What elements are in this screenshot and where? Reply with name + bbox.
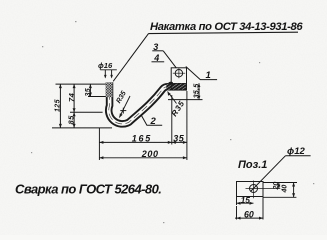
svg-text:Сварка по ГОСТ 5264-80.: Сварка по ГОСТ 5264-80. — [15, 182, 161, 197]
weld symbol 3/4 — [152, 42, 165, 63]
R35 upper bend — [168, 92, 187, 119]
svg-text:60: 60 — [244, 209, 254, 219]
dim 125 vertical — [55, 84, 62, 128]
detail dims 20 / 40 right — [263, 182, 297, 198]
svg-text:40: 40 — [282, 185, 289, 194]
detail hole — [246, 181, 281, 199]
dim 200 — [99, 149, 186, 159]
note: Сварка по ГОСТ 5264-80. — [15, 182, 161, 197]
svg-text:35,5: 35,5 — [192, 83, 201, 99]
svg-text:85: 85 — [67, 115, 76, 125]
dim 35 knurl length — [85, 84, 106, 96]
svg-text:ϕ16: ϕ16 — [98, 61, 113, 70]
leader from title to knurl — [113, 34, 148, 82]
svg-text:35: 35 — [173, 133, 185, 143]
svg-text:20: 20 — [273, 182, 280, 191]
detail dim 60 — [235, 197, 263, 220]
rod end cap at plate right face — [185, 83, 187, 91]
dim 85 vertical — [67, 112, 76, 128]
position flag 1 — [186, 67, 217, 82]
detail label Поз.1 — [238, 159, 267, 171]
detail plate front view — [237, 182, 264, 197]
svg-text:15: 15 — [241, 195, 251, 205]
svg-text:2: 2 — [150, 116, 157, 127]
svg-text:74: 74 — [67, 92, 76, 102]
dim 35,5 right vertical — [168, 83, 203, 100]
weld bead at rod-plate junction — [169, 82, 174, 85]
left dims extension lines — [52, 84, 112, 128]
knurled section (top of rod) — [106, 82, 113, 97]
svg-text:35: 35 — [85, 88, 92, 97]
svg-text:200: 200 — [141, 149, 159, 159]
svg-text:ϕ12: ϕ12 — [287, 146, 305, 157]
plate hole (side view) — [173, 68, 185, 78]
scan specks — [31, 21, 314, 223]
svg-text:165: 165 — [132, 133, 152, 143]
svg-text:Поз.1: Поз.1 — [238, 159, 267, 171]
rod (bent bar, side view, double outline) — [109, 82, 187, 124]
svg-text:125: 125 — [55, 99, 62, 112]
phi12 leader — [251, 146, 311, 191]
svg-text:Накатка по ОСТ 34-13-931-86: Накатка по ОСТ 34-13-931-86 — [150, 21, 303, 33]
R35 lower bend — [115, 90, 130, 118]
plate (side view rectangle) — [171, 68, 186, 90]
knurled section (horizontal end at plate) — [166, 84, 186, 91]
detail dim 15 — [237, 195, 254, 205]
svg-text:1: 1 — [206, 70, 211, 81]
bottom dims extension lines — [99, 91, 186, 160]
position label 2 with leader — [141, 115, 162, 127]
dim phi16 — [98, 61, 117, 78]
weld leader to plate top — [163, 51, 176, 68]
dim 165 + 35 — [99, 133, 186, 144]
dim 74 vertical — [67, 84, 76, 128]
title: Накатка по ОСТ 34-13-931-86 — [149, 21, 304, 34]
